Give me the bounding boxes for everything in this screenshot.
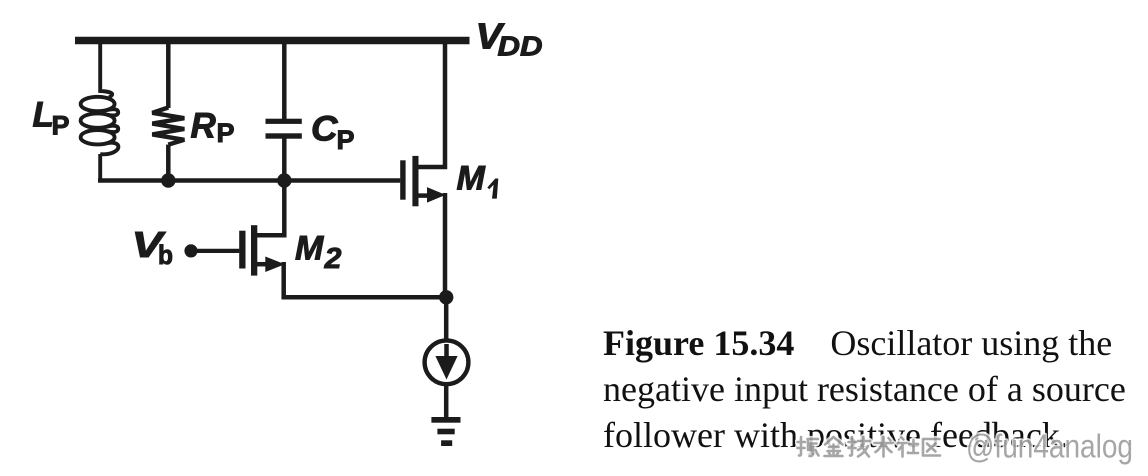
- node VDD label: [476, 16, 543, 62]
- svg-text:C: C: [311, 110, 338, 149]
- svg-text:M: M: [457, 160, 486, 198]
- wire node to current source: [444, 297, 449, 340]
- M2 source down wire + bottom wire: [284, 262, 447, 297]
- current source arrow head: [435, 356, 457, 380]
- svg-text:P: P: [337, 125, 355, 155]
- svg-text:@fun4analog: @fun4analog: [966, 429, 1133, 465]
- label CP: [311, 110, 355, 155]
- M2 source arrow: [265, 257, 285, 273]
- M1 source arrow: [427, 187, 446, 203]
- transistor M1 channel bar: [412, 156, 418, 206]
- svg-text:M: M: [295, 230, 324, 268]
- transistor M1 gate bar: [400, 160, 405, 199]
- svg-text:P: P: [217, 118, 235, 148]
- transistor M2 gate bar: [239, 231, 245, 269]
- wire CP to M2 drain: [282, 139, 287, 238]
- Vb gate wire: [191, 249, 239, 253]
- current source I1 circle: [425, 340, 469, 384]
- wire RP to node: [166, 145, 171, 181]
- M1 source wire with arrow: [417, 193, 432, 198]
- label LP: [33, 96, 70, 141]
- M1 drain wire: [417, 44, 445, 167]
- label Vb: [132, 224, 174, 270]
- ground symbol: [431, 417, 460, 446]
- M2 drain wire: [256, 233, 287, 238]
- resistor RP: [152, 108, 184, 145]
- label M2: [295, 230, 342, 276]
- watermark: [795, 429, 1148, 469]
- label M1: [457, 160, 499, 199]
- svg-text:P: P: [52, 111, 70, 141]
- wire rail to RP: [166, 44, 171, 108]
- svg-text:R: R: [191, 107, 217, 146]
- label RP: [191, 107, 235, 148]
- Vb terminal dot: [184, 244, 197, 257]
- current source arrow shaft: [444, 344, 449, 360]
- M2 source wire: [256, 262, 270, 267]
- VDD rail: [75, 37, 470, 45]
- node line (tank node to M1 gate): [98, 178, 400, 183]
- svg-text:2: 2: [324, 243, 342, 275]
- M1 source down wire: [443, 193, 448, 297]
- svg-text:b: b: [158, 240, 173, 270]
- figure caption: [603, 320, 1140, 458]
- capacitor CP: [266, 119, 302, 139]
- junction dot CP/node: [277, 173, 291, 187]
- junction dot tail node: [439, 290, 453, 304]
- junction dot RP/node: [161, 173, 175, 187]
- wire rail to CP: [282, 44, 287, 119]
- transistor M2 channel bar: [251, 225, 257, 275]
- inductor LP: [81, 44, 119, 182]
- wire current source to ground: [444, 386, 449, 418]
- svg-text:DD: DD: [498, 31, 543, 62]
